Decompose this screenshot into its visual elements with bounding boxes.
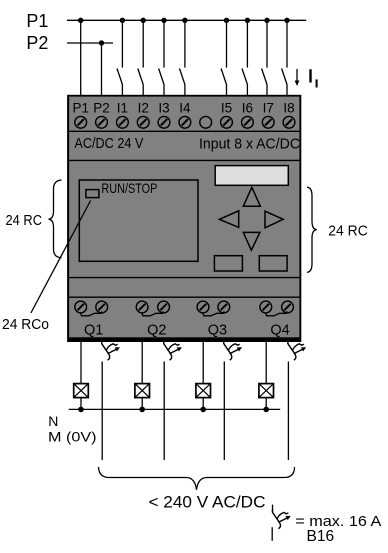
wire Q1 load drop	[80, 342, 82, 384]
wire Q1 breaker stub	[101, 342, 103, 344]
brace right 24 RC	[307, 187, 317, 272]
pointer line 24 RCo to LED	[31, 201, 91, 314]
wire Q2 load drop	[141, 342, 143, 384]
svg-text:B16: B16	[307, 528, 335, 545]
wire P2 bus	[67, 42, 113, 44]
svg-text:M (0V): M (0V)	[48, 429, 97, 445]
svg-text:Q4: Q4	[270, 322, 289, 338]
breaker Q4	[288, 341, 306, 360]
screw terminal unused	[200, 116, 212, 128]
svg-text:P2: P2	[93, 101, 110, 116]
label I subscript	[316, 79, 318, 87]
divider line below type text band	[68, 159, 302, 161]
svg-text:P2: P2	[26, 33, 48, 53]
svg-text:< 240 V AC/DC: < 240 V AC/DC	[149, 494, 266, 512]
junction dot I7	[264, 18, 269, 23]
screw terminal Q3 left	[197, 301, 209, 313]
svg-text:24 RCo: 24 RCo	[2, 317, 49, 333]
junction dot I5	[224, 18, 229, 23]
wire Q2 phase down	[163, 362, 165, 461]
junction dot P1	[78, 18, 83, 23]
svg-text:N: N	[48, 413, 58, 429]
svg-text:Q3: Q3	[208, 322, 227, 338]
svg-text:Input 8 x AC/DC: Input 8 x AC/DC	[199, 135, 300, 152]
brace left 24 RC	[49, 180, 62, 258]
screw terminal P1	[75, 116, 87, 128]
breaker Q2	[164, 341, 182, 360]
keypad arrow right	[265, 211, 283, 228]
screw terminal Q3 right	[218, 301, 230, 313]
divider line below input screws	[68, 130, 302, 132]
screw terminal I2	[137, 116, 149, 128]
screw terminal I3	[158, 116, 170, 128]
current arrow II	[295, 69, 300, 86]
legend breaker symbol	[272, 505, 291, 541]
svg-text:24 RC: 24 RC	[6, 213, 43, 229]
svg-text:I7: I7	[263, 101, 274, 116]
screw terminal I8	[283, 116, 295, 128]
svg-text:P1: P1	[72, 101, 89, 116]
wire P1 drop	[80, 20, 82, 95]
wire Q3 phase down	[223, 362, 225, 461]
screw terminal Q2 right	[158, 301, 170, 313]
svg-text:I4: I4	[179, 101, 191, 116]
junction dot I2	[141, 18, 146, 23]
underbrace 240V	[99, 467, 295, 490]
module body gray face	[69, 97, 299, 338]
switch I6	[242, 20, 247, 95]
svg-text:P1: P1	[26, 11, 48, 31]
switch I1	[117, 20, 122, 95]
load lamp Q1	[74, 384, 89, 398]
svg-text:Q1: Q1	[84, 322, 103, 338]
svg-text:I8: I8	[283, 101, 294, 116]
switch I7	[262, 20, 267, 95]
load lamp Q2	[135, 384, 150, 398]
relay contact Q1	[80, 311, 102, 315]
RUN/STOP LED	[86, 190, 99, 198]
svg-text:Q2: Q2	[147, 322, 166, 338]
svg-text:RUN/STOP: RUN/STOP	[101, 180, 157, 196]
relay contact Q2	[142, 311, 164, 315]
switch I3	[159, 20, 164, 95]
screw terminal I5	[221, 116, 233, 128]
divider line below keypad panel	[68, 277, 302, 279]
wire Q4 load to bus	[265, 398, 267, 410]
wire Q1 phase down	[101, 362, 103, 461]
svg-text:I6: I6	[242, 101, 253, 116]
key OK	[259, 256, 287, 271]
screw terminal I4	[179, 116, 191, 128]
junction dot P2	[99, 40, 104, 45]
junction dot I1	[120, 18, 125, 23]
wire P1 bus	[67, 19, 306, 21]
keypad arrow left	[219, 211, 238, 228]
svg-text:I5: I5	[221, 101, 232, 116]
svg-text:24 RC: 24 RC	[328, 224, 368, 240]
wire Q2 breaker stub	[163, 342, 165, 344]
svg-text:I3: I3	[158, 101, 169, 116]
relay contact Q3	[203, 311, 225, 315]
wire Q3 load to bus	[202, 398, 204, 410]
wire Q4 breaker stub	[287, 342, 289, 344]
wire Q3 breaker stub	[223, 342, 225, 344]
divider line above output screws	[68, 296, 302, 298]
svg-text:I1: I1	[117, 101, 128, 116]
wire Q1 load to bus	[80, 398, 82, 410]
junction dot Q3 bus	[200, 407, 206, 413]
screw terminal I7	[262, 116, 274, 128]
wire Q4 load drop	[265, 342, 267, 384]
screw terminal Q2 left	[136, 301, 148, 313]
screw terminal I1	[117, 116, 129, 128]
LCD panel	[215, 166, 288, 186]
junction dot Q4 bus	[263, 407, 269, 413]
load lamp Q3	[196, 384, 211, 398]
breaker Q3	[224, 341, 242, 360]
key ESC	[214, 256, 242, 271]
screw terminal Q4 right	[282, 301, 294, 313]
load lamp Q4	[259, 384, 274, 398]
relay contact Q4	[265, 311, 287, 315]
junction dot I8	[284, 18, 289, 23]
junction dot Q1 bus	[78, 407, 84, 413]
screw terminal Q1 right	[96, 301, 108, 313]
label I	[309, 69, 311, 82]
wire N bus	[69, 408, 280, 410]
switch I5	[221, 20, 226, 95]
keypad arrow down	[243, 232, 260, 250]
wire Q3 load drop	[202, 342, 204, 384]
junction dot I3	[161, 18, 166, 23]
junction dot I4	[182, 18, 187, 23]
keypad arrow up	[243, 187, 260, 206]
display window frame	[79, 180, 198, 261]
switch I4	[180, 20, 185, 95]
junction dot Q2 bus	[139, 407, 145, 413]
screw terminal I6	[242, 116, 254, 128]
wire Q4 phase down	[287, 362, 289, 461]
wire Q2 load to bus	[141, 398, 143, 410]
junction dot I6	[245, 18, 250, 23]
screw terminal Q1 left	[75, 301, 87, 313]
breaker Q1	[102, 341, 120, 360]
switch I2	[138, 20, 143, 95]
module body outer frame	[67, 95, 301, 342]
svg-text:I2: I2	[138, 101, 149, 116]
svg-text:AC/DC 24 V: AC/DC 24 V	[74, 135, 143, 152]
screw terminal P2	[96, 116, 108, 128]
screw terminal Q4 left	[260, 301, 272, 313]
wire P2 drop	[101, 43, 103, 96]
switch I8	[282, 20, 287, 95]
